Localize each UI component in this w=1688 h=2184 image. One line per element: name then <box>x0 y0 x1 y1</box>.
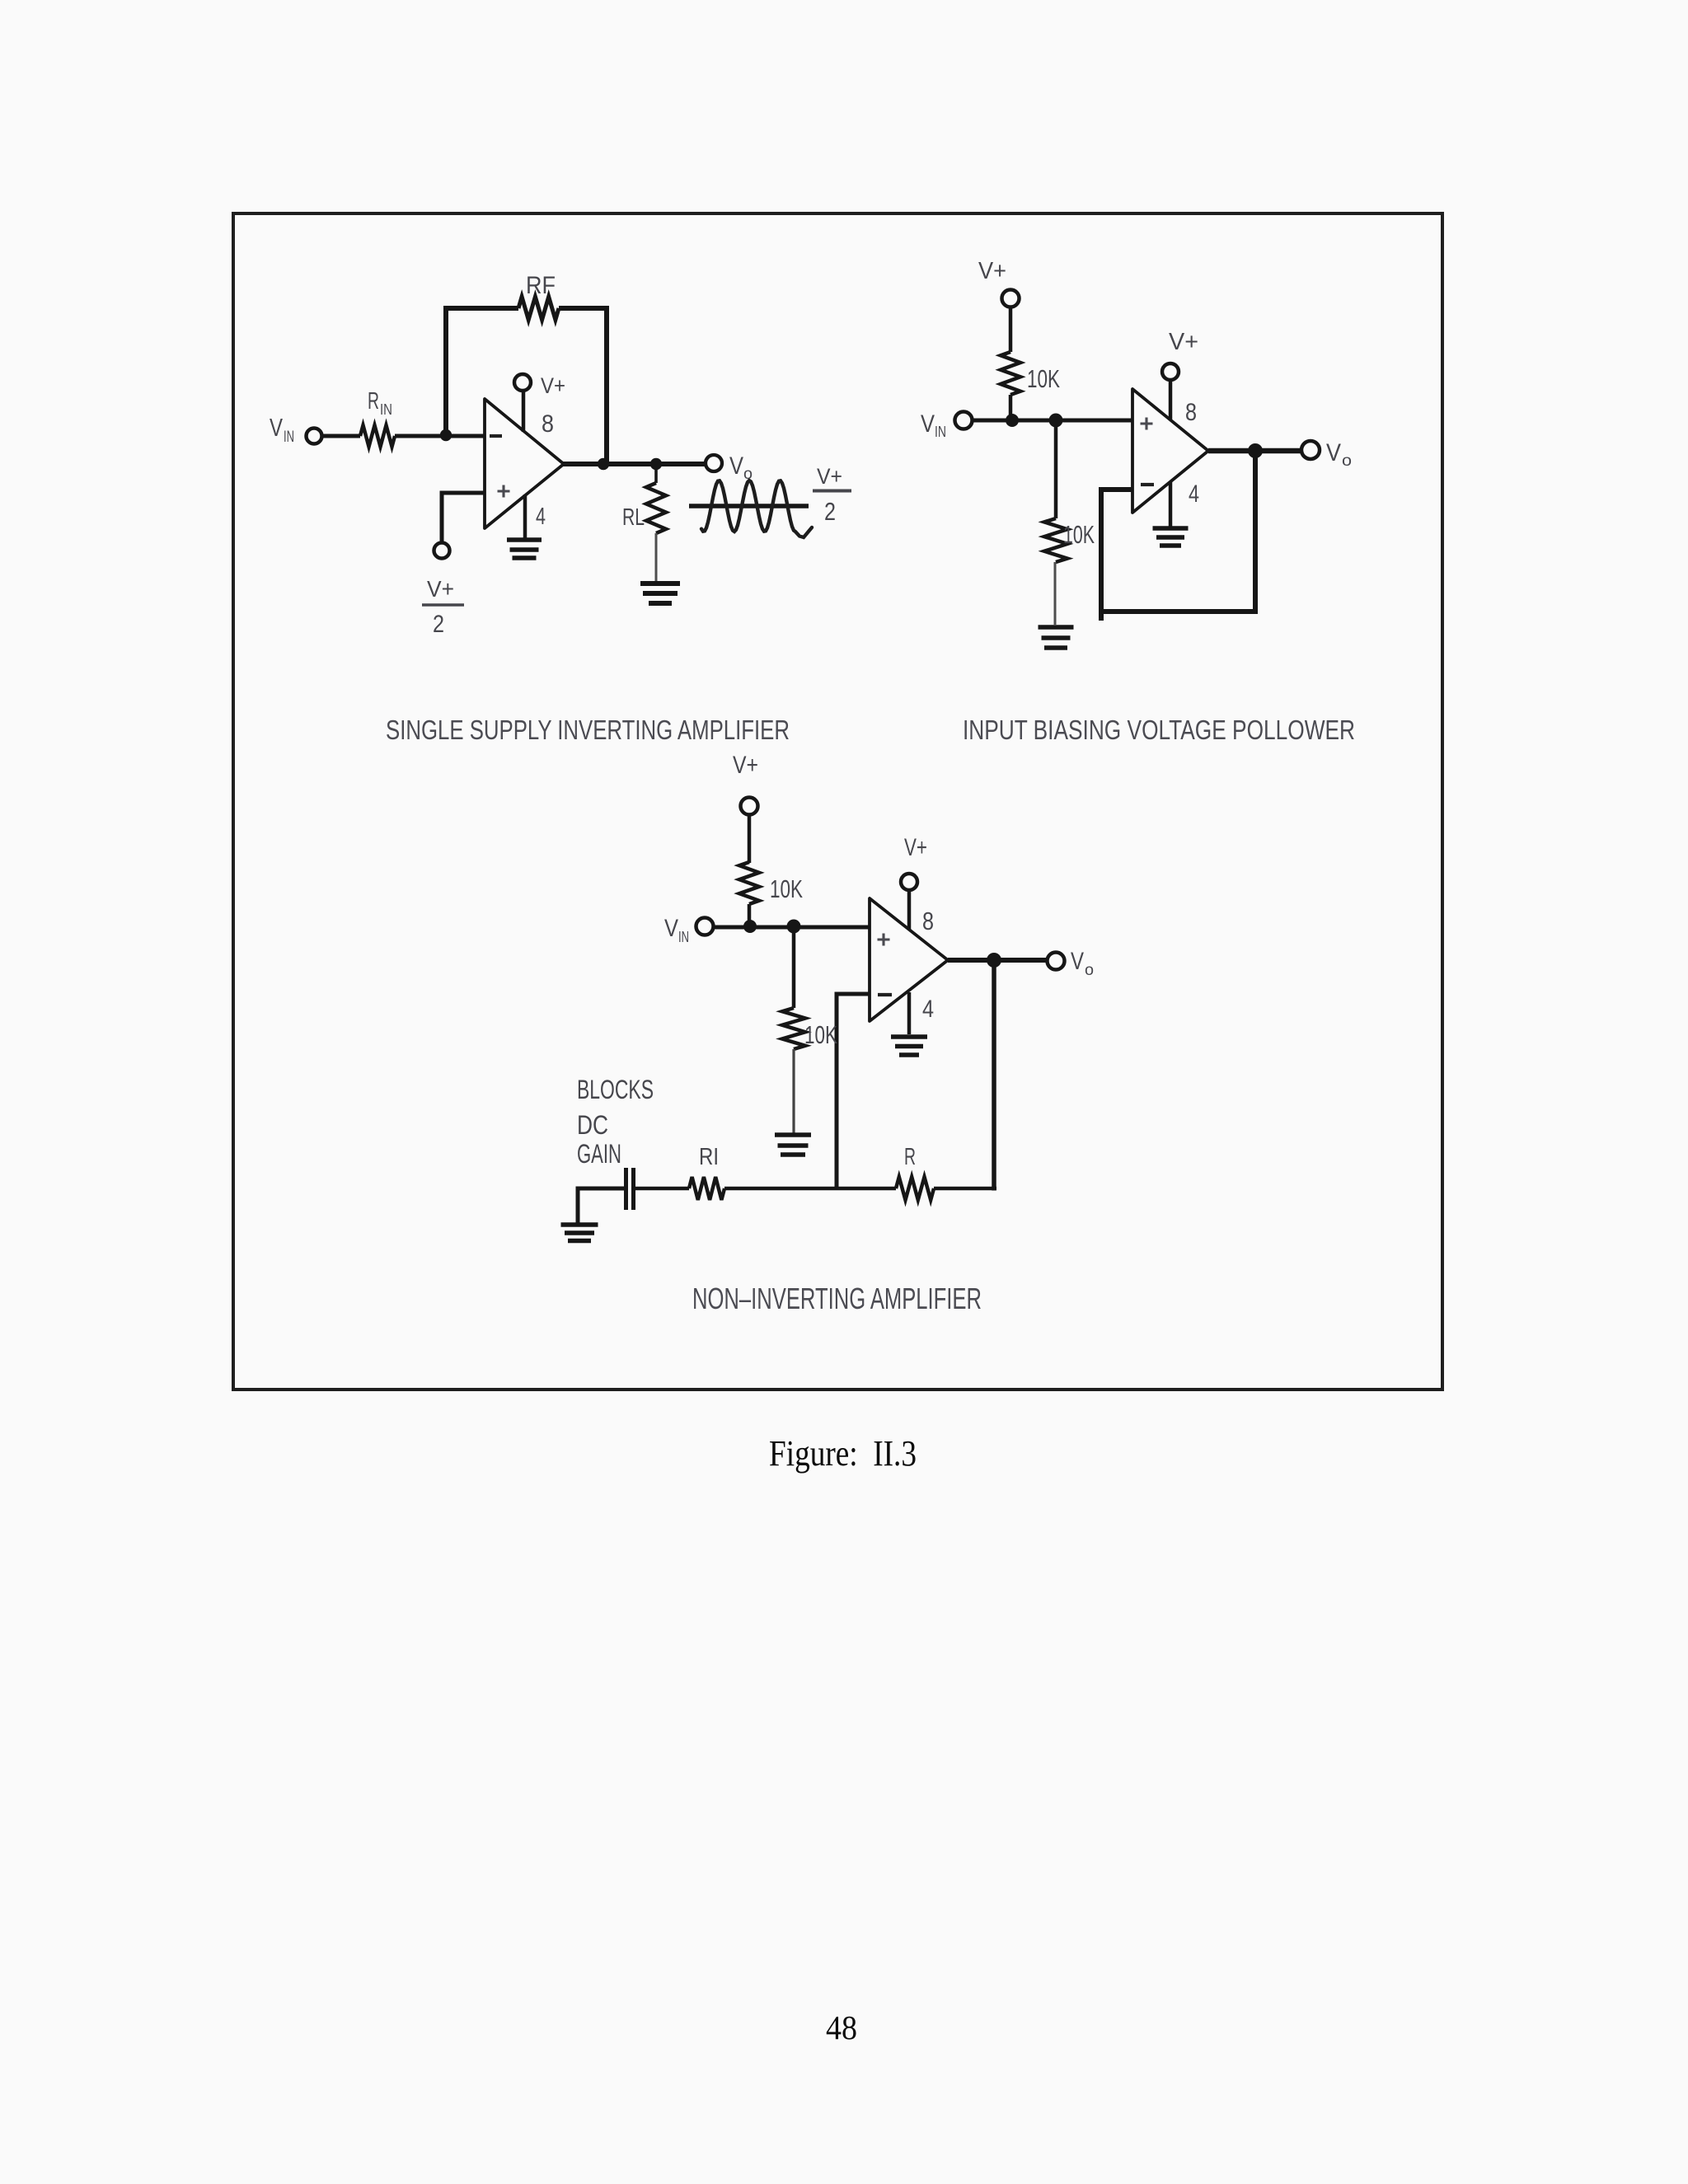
svg-text:48: 48 <box>826 2008 857 2046</box>
label Vo (circuit 1) <box>729 452 753 483</box>
wire V+ to R1 (circuit 2) <box>1009 307 1013 352</box>
svg-text:4: 4 <box>536 504 546 530</box>
wire RL to ground <box>655 533 658 581</box>
terminal Vo (circuit 3) <box>1048 953 1065 970</box>
svg-text:2: 2 <box>824 497 836 526</box>
svg-text:V+: V+ <box>427 576 454 602</box>
wire R4 to ground <box>792 1049 795 1133</box>
non-inverting input marker U3 <box>878 934 890 946</box>
wire pin 4 to ground (U2) <box>1169 481 1173 529</box>
ground (U2 pin 4) <box>1153 526 1189 531</box>
wire output (circuit 2) <box>1208 448 1302 454</box>
non-inverting input marker U2 <box>1141 418 1153 430</box>
label V+/2 (waveform level) <box>813 464 851 526</box>
node A (inverting input junction) <box>440 429 452 441</box>
output waveform (sine) <box>701 480 812 537</box>
svg-text:INPUT BIASING VOLTAGE POLLOWER: INPUT BIASING VOLTAGE POLLOWER <box>963 715 1355 745</box>
wire non-inverting input (U1) <box>442 493 485 543</box>
wire feedback loop (circuit 2) <box>1101 451 1255 612</box>
svg-text:NON–INVERTING AMPLIFIER: NON–INVERTING AMPLIFIER <box>692 1282 982 1315</box>
svg-text:10K: 10K <box>1063 520 1095 549</box>
wire feedback down (circuit 3) <box>992 960 996 1191</box>
resistor R3 10K (circuit 3 upper) <box>739 862 759 904</box>
wire R to inverting node <box>837 1187 896 1191</box>
wire R3 to input node <box>748 904 752 927</box>
terminal V+ pin 8 (U1) <box>514 374 531 391</box>
label VIN (circuit 2) <box>921 410 946 440</box>
label RIN <box>368 388 392 418</box>
svg-text:8: 8 <box>922 907 934 935</box>
svg-text:V+: V+ <box>1169 329 1198 355</box>
svg-text:V+: V+ <box>541 373 565 398</box>
resistor RL <box>646 483 666 533</box>
svg-text:V: V <box>664 915 678 942</box>
svg-text:V+: V+ <box>733 752 758 779</box>
svg-text:RL: RL <box>622 504 645 531</box>
terminal V+/2 bias (circuit 1) <box>434 543 450 559</box>
svg-text:R: R <box>904 1144 916 1170</box>
wire feedback top right <box>559 306 609 311</box>
terminal V+ (circuit 2) <box>1002 290 1020 307</box>
svg-text:R: R <box>368 388 379 415</box>
op-amp U2 <box>1132 389 1208 513</box>
wire inverting input riser (circuit 3) <box>837 994 870 1190</box>
terminal Vo (circuit 1) <box>706 455 722 471</box>
waveform axis line <box>689 504 809 509</box>
svg-text:V+: V+ <box>817 464 842 489</box>
svg-text:SINGLE SUPPLY INVERTING AMPLIF: SINGLE SUPPLY INVERTING AMPLIFIER <box>386 715 790 745</box>
node I (circuit 3 output junction) <box>987 953 1001 968</box>
node E (circuit 2 divider junction) <box>1049 414 1063 428</box>
terminal V+ (circuit 3) <box>741 798 758 815</box>
terminal V+ pin 8 (U2) <box>1162 363 1179 380</box>
resistor RIN <box>360 425 395 447</box>
svg-text:IN: IN <box>284 429 294 446</box>
svg-text:4: 4 <box>1189 480 1199 508</box>
wire input (circuit 3) <box>714 926 870 930</box>
svg-text:DC: DC <box>577 1110 608 1140</box>
inverting input marker U2 <box>1141 483 1154 486</box>
ground (input capacitor) <box>561 1222 598 1227</box>
svg-text:V+: V+ <box>978 258 1006 284</box>
wire VIN to RIN <box>322 434 360 438</box>
svg-text:o: o <box>1342 452 1352 470</box>
terminal VIN (circuit 1) <box>307 429 322 444</box>
svg-text:2: 2 <box>433 611 444 638</box>
wire node A up to feedback <box>443 308 448 437</box>
svg-text:o: o <box>1085 962 1094 979</box>
wire capacitor to RI <box>635 1187 689 1191</box>
label V+/2 (bias) <box>422 576 464 638</box>
svg-text:RI: RI <box>699 1144 719 1170</box>
svg-text:V: V <box>921 410 935 438</box>
inverting input marker U1 <box>490 434 502 438</box>
wire pin 4 to ground (U3) <box>907 992 912 1034</box>
wire feedback top left <box>443 306 518 311</box>
non-inverting input marker U1 <box>498 485 510 498</box>
svg-text:BLOCKS: BLOCKS <box>577 1075 654 1104</box>
svg-text:Figure: II.3: Figure: II.3 <box>769 1433 917 1474</box>
node F (circuit 2 output junction) <box>1248 443 1263 458</box>
wire V+ to R3 (circuit 3) <box>748 815 752 863</box>
node D (circuit 2 bias junction) <box>1006 414 1019 427</box>
wire feedback right vertical <box>604 306 609 464</box>
label VIN (circuit 3) <box>664 915 689 945</box>
label VIN (circuit 1 input) <box>270 413 294 446</box>
wire RIN to inverting input <box>395 434 485 438</box>
svg-text:4: 4 <box>922 996 934 1023</box>
svg-text:10K: 10K <box>804 1020 837 1049</box>
op-amp U3 <box>870 898 948 1021</box>
terminal VIN (circuit 2) <box>955 412 973 429</box>
ground (U1 pin 4) <box>507 537 542 542</box>
terminal VIN (circuit 3) <box>696 918 714 935</box>
svg-text:RF: RF <box>526 272 556 299</box>
node B (output junction) <box>598 458 609 470</box>
node C (RL junction) <box>650 458 662 470</box>
wire output (circuit 1) <box>563 462 706 466</box>
svg-text:10K: 10K <box>1027 364 1060 393</box>
svg-text:V: V <box>1326 439 1341 466</box>
inverting input marker U3 <box>878 993 892 996</box>
resistor R (feedback) <box>896 1177 934 1200</box>
resistor R1 10K (circuit 2 upper) <box>1001 352 1020 395</box>
svg-text:V: V <box>270 413 283 442</box>
resistor RI <box>689 1177 724 1200</box>
wire R2 to ground <box>1054 562 1057 625</box>
svg-text:GAIN: GAIN <box>577 1139 621 1169</box>
resistor R4 10K (circuit 3 lower) <box>782 1008 805 1049</box>
svg-text:V: V <box>1071 948 1084 975</box>
wire node E to R2 <box>1054 420 1058 518</box>
svg-text:10K: 10K <box>770 874 803 903</box>
svg-text:IN: IN <box>380 401 392 418</box>
label BLOCKS DC GAIN <box>577 1075 654 1169</box>
svg-text:8: 8 <box>1185 399 1197 426</box>
label Vo (circuit 3) <box>1071 948 1094 979</box>
wire node H to R4 <box>792 927 796 1008</box>
svg-text:V+: V+ <box>904 834 927 861</box>
terminal V+ pin 8 (U3) <box>901 874 917 890</box>
ground (RL) <box>640 581 680 586</box>
label Vo (circuit 2) <box>1326 439 1352 470</box>
ground (R4) <box>775 1132 811 1137</box>
wire RI to inverting node <box>724 1187 837 1191</box>
svg-text:8: 8 <box>542 410 554 438</box>
svg-text:IN: IN <box>678 929 689 945</box>
wire R1 to input node <box>1009 395 1013 420</box>
resistor R2 10K (circuit 2 lower) <box>1044 518 1067 562</box>
op-amp U1 <box>485 399 564 528</box>
svg-text:V: V <box>729 452 743 480</box>
wire input (circuit 2) <box>973 419 1132 423</box>
resistor RF <box>518 297 559 320</box>
node G (circuit 3 bias junction) <box>743 920 757 933</box>
svg-text:IN: IN <box>935 424 946 440</box>
wire V+ to pin 8 (U3) <box>907 891 912 930</box>
ground (R2) <box>1039 625 1074 630</box>
node H (circuit 3 divider junction) <box>787 920 801 934</box>
wire feedback to R <box>934 1187 996 1191</box>
terminal Vo (circuit 2) <box>1301 441 1320 459</box>
wire capacitor to ground elbow <box>578 1188 624 1223</box>
wire V+ to pin 8 (U1) <box>522 391 526 432</box>
wire RL top <box>654 469 658 483</box>
wire output (circuit 3) <box>948 958 1048 963</box>
wire V+ to pin 8 (U2) <box>1169 381 1173 420</box>
ground (U3 pin 4) <box>891 1034 927 1039</box>
capacitor C1 (DC blocking) <box>626 1168 634 1210</box>
wire pin 4 to ground (U1) <box>523 494 527 538</box>
